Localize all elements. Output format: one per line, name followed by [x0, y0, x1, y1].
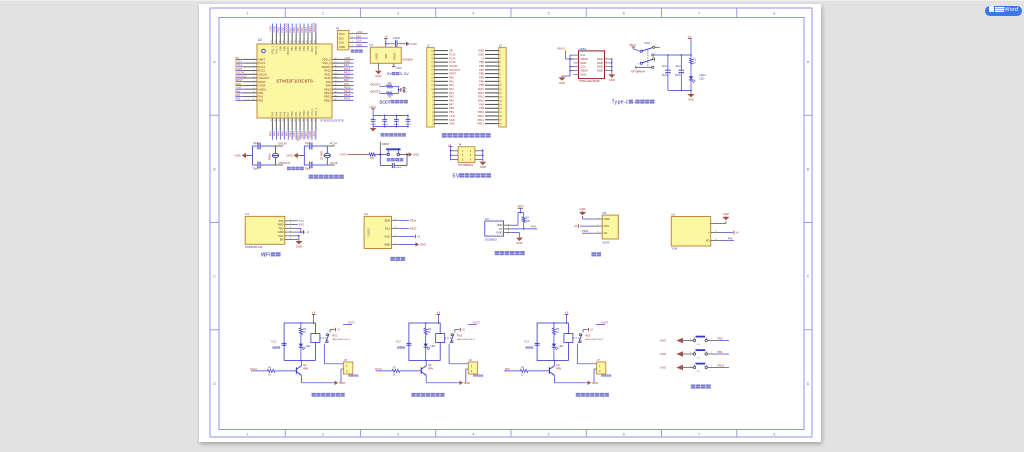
svg-text:2: 2 — [290, 223, 291, 225]
svg-text:SWDIO: SWDIO — [322, 65, 331, 69]
svg-text:4: 4 — [606, 58, 607, 60]
svg-text:NPN: NPN — [428, 367, 433, 370]
svg-text:PC13: PC13 — [258, 61, 265, 65]
svg-text:PB6: PB6 — [479, 72, 484, 76]
svg-text:PA2: PA2 — [235, 97, 240, 101]
svg-text:30pF: 30pF — [305, 142, 311, 145]
svg-text:1: 1 — [247, 12, 249, 16]
svg-text:STA: STA — [279, 219, 284, 223]
svg-text:+5: +5 — [574, 224, 578, 228]
svg-text:GND: GND — [597, 65, 603, 69]
svg-text:VBUS: VBUS — [629, 43, 636, 47]
svg-text:PA15: PA15 — [310, 45, 314, 52]
svg-text:GND: GND — [235, 82, 241, 86]
svg-text:GND: GND — [344, 60, 350, 64]
svg-text:U6: U6 — [671, 212, 675, 216]
svg-text:GND: GND — [580, 72, 586, 76]
svg-text:PA8: PA8 — [479, 106, 484, 110]
svg-text:+3V3: +3V3 — [449, 114, 456, 118]
svg-text:GND: GND — [339, 381, 345, 385]
svg-text:YD8: YD8 — [671, 247, 677, 251]
svg-text:5: 5 — [548, 432, 550, 436]
svg-text:GND: GND — [478, 49, 484, 53]
svg-text:10: 10 — [253, 92, 255, 94]
svg-text:104uF: 104uF — [370, 124, 377, 126]
svg-text:38: 38 — [335, 95, 337, 97]
svg-text:1: 1 — [290, 219, 291, 221]
svg-text:104uF: 104uF — [393, 36, 401, 40]
svg-text:VBUS: VBUS — [580, 69, 588, 73]
svg-text:B: B — [213, 167, 216, 171]
svg-text:OUT3: OUT3 — [601, 320, 609, 324]
svg-text:GND: GND — [278, 230, 284, 234]
svg-text:1K: 1K — [693, 61, 696, 65]
svg-text:VOUT: VOUT — [393, 52, 397, 60]
svg-text:PA5: PA5 — [278, 111, 282, 116]
svg-text:2: 2 — [711, 366, 712, 368]
svg-text:C: C — [213, 275, 216, 279]
svg-text:PB14: PB14 — [410, 218, 417, 222]
svg-text:SWCLK: SWCLK — [314, 46, 318, 55]
svg-text:NPN: NPN — [303, 367, 308, 370]
svg-text:1K: 1K — [521, 374, 524, 377]
svg-text:PA4: PA4 — [531, 225, 536, 229]
svg-text:PB0: PB0 — [449, 106, 454, 110]
svg-text:11: 11 — [253, 95, 255, 97]
svg-text:TXD: TXD — [278, 226, 283, 230]
svg-text:PA4: PA4 — [274, 111, 278, 116]
svg-text:PA10: PA10 — [478, 99, 485, 103]
svg-text:4: 4 — [254, 69, 255, 71]
svg-text:10K: 10K — [526, 219, 531, 223]
svg-text:PB13: PB13 — [410, 226, 417, 230]
svg-text:VSS_2: VSS_2 — [322, 61, 331, 65]
svg-text:PB11: PB11 — [582, 229, 589, 233]
svg-text:6: 6 — [623, 432, 625, 436]
svg-text:PA8: PA8 — [344, 82, 349, 86]
svg-text:LED: LED — [430, 345, 435, 348]
svg-text:6: 6 — [623, 12, 625, 16]
svg-text:GND: GND — [597, 69, 603, 73]
svg-text:PA2: PA2 — [449, 83, 454, 87]
svg-text:GND: GND — [660, 339, 666, 343]
svg-text:GND: GND — [410, 42, 416, 46]
svg-text:VB: VB — [235, 56, 239, 60]
svg-text:+5: +5 — [312, 310, 316, 314]
svg-text:+5: +5 — [590, 328, 594, 332]
svg-text:9: 9 — [254, 88, 255, 90]
svg-text:5: 5 — [548, 12, 550, 16]
svg-text:SWCLK: SWCLK — [312, 22, 316, 32]
svg-text:PA3: PA3 — [449, 87, 454, 91]
svg-text:+5: +5 — [417, 234, 421, 238]
svg-text:Q3: Q3 — [556, 363, 560, 367]
svg-text:PA12: PA12 — [478, 91, 485, 95]
svg-text:CC2: CC2 — [580, 65, 586, 69]
svg-text:PB15: PB15 — [344, 86, 351, 90]
svg-text:44: 44 — [335, 73, 337, 75]
svg-text:TX2: TX2 — [299, 219, 304, 223]
svg-text:RU2: RU2 — [457, 333, 463, 337]
svg-text:8: 8 — [254, 84, 255, 86]
svg-text:PC13: PC13 — [235, 60, 242, 64]
svg-text:GND: GND — [356, 43, 362, 47]
svg-text:PB12: PB12 — [324, 98, 331, 102]
svg-text:R2: R2 — [526, 215, 530, 219]
svg-text:4: 4 — [290, 231, 291, 233]
svg-text:4: 4 — [655, 61, 656, 63]
svg-text:PA9: PA9 — [326, 80, 331, 84]
svg-text:VB: VB — [449, 49, 453, 53]
svg-text:NRST: NRST — [235, 78, 243, 82]
svg-text:PA0: PA0 — [449, 76, 454, 80]
svg-text:GND: GND — [413, 153, 419, 157]
svg-text:J3: J3 — [499, 43, 503, 47]
svg-text:1: 1 — [247, 432, 249, 436]
svg-text:+5: +5 — [337, 328, 341, 332]
svg-text:VCC: VCC — [278, 234, 284, 238]
svg-text:PB0: PB0 — [290, 111, 294, 116]
svg-text:PA7: PA7 — [449, 102, 454, 106]
svg-text:PB1: PB1 — [449, 110, 454, 114]
svg-text:FC2: FC2 — [396, 341, 401, 344]
svg-text:GND: GND — [660, 366, 666, 370]
svg-text:J5: J5 — [344, 358, 347, 362]
svg-text:10K: 10K — [370, 157, 375, 160]
svg-text:S1: S1 — [697, 371, 700, 373]
svg-text:Q2: Q2 — [428, 363, 432, 367]
svg-text:3: 3 — [606, 61, 607, 63]
svg-text:VDD: VDD — [497, 223, 503, 227]
svg-text:FC2: FC2 — [271, 341, 276, 344]
svg-text:1K: 1K — [393, 374, 396, 377]
svg-text:PA10: PA10 — [324, 76, 331, 80]
svg-text:2: 2 — [406, 91, 408, 93]
svg-text:2: 2 — [606, 65, 607, 67]
svg-text:PC15: PC15 — [449, 60, 456, 64]
svg-text:GND: GND — [580, 61, 586, 65]
svg-text:PC14: PC14 — [258, 65, 265, 69]
svg-text:LED: LED — [559, 345, 564, 348]
svg-text:+3V3: +3V3 — [395, 66, 402, 70]
svg-text:PB6: PB6 — [294, 45, 298, 50]
svg-text:B: B — [807, 167, 810, 171]
svg-text:GND: GND — [235, 154, 241, 158]
svg-text:3: 3 — [397, 12, 399, 16]
svg-text:PB1: PB1 — [294, 111, 298, 116]
svg-text:J4: J4 — [458, 143, 462, 147]
svg-text:PB7: PB7 — [479, 68, 484, 72]
svg-text:S1: S1 — [697, 344, 700, 346]
svg-text:VDD_2: VDD_2 — [322, 58, 331, 62]
svg-text:PA1: PA1 — [449, 79, 454, 83]
svg-text:7: 7 — [698, 432, 700, 436]
svg-text:C: C — [807, 275, 810, 279]
svg-text:U1: U1 — [245, 212, 249, 216]
svg-text:30pF: 30pF — [253, 167, 259, 170]
svg-text:PB4: PB4 — [302, 45, 306, 50]
svg-text:RU1: RU1 — [332, 333, 338, 337]
svg-text:PA12: PA12 — [344, 71, 351, 75]
svg-text:R7: R7 — [393, 367, 397, 370]
svg-text:PC13: PC13 — [375, 367, 382, 371]
svg-text:EC2: EC2 — [676, 64, 682, 68]
svg-text:PC14: PC14 — [330, 141, 337, 145]
svg-text:I/O: I/O — [604, 231, 608, 235]
svg-text:PA12: PA12 — [324, 69, 331, 73]
svg-text:PB1: PB1 — [718, 350, 724, 354]
svg-text:PB11: PB11 — [306, 110, 310, 117]
svg-text:+3V3: +3V3 — [344, 56, 351, 60]
svg-text:+3V3: +3V3 — [517, 204, 524, 208]
svg-text:2: 2 — [711, 339, 712, 341]
svg-text:6: 6 — [290, 238, 291, 240]
svg-text:+3V3: +3V3 — [369, 105, 376, 109]
svg-text:GND: GND — [688, 97, 694, 101]
svg-text:PB15: PB15 — [478, 110, 485, 114]
svg-text:SRD-05VDC-SL-C: SRD-05VDC-SL-C — [585, 339, 604, 341]
svg-text:5: 5 — [254, 73, 255, 75]
svg-text:GND: GND — [296, 244, 302, 248]
svg-text:VSS_1: VSS_1 — [274, 45, 278, 54]
svg-text:1K: 1K — [556, 331, 559, 334]
svg-text:3: 3 — [254, 66, 255, 68]
svg-text:RU3: RU3 — [585, 333, 591, 337]
svg-text:NRST: NRST — [382, 142, 390, 146]
svg-text:VDD_1: VDD_1 — [314, 108, 318, 117]
svg-text:PA15: PA15 — [478, 87, 485, 91]
svg-text:OLED: OLED — [367, 227, 371, 236]
svg-text:PB0: PB0 — [718, 336, 724, 340]
svg-text:P1: P1 — [336, 26, 340, 30]
svg-text:PC14: PC14 — [449, 56, 456, 60]
svg-text:GND: GND — [449, 118, 455, 122]
svg-text:D: D — [213, 382, 216, 386]
svg-text:BOOT1: BOOT1 — [371, 90, 381, 94]
svg-text:+5: +5 — [437, 310, 441, 314]
svg-text:GND: GND — [597, 57, 603, 61]
svg-text:8: 8 — [773, 432, 775, 436]
svg-text:PB13: PB13 — [478, 118, 485, 122]
svg-text:U3: U3 — [485, 217, 489, 221]
svg-text:+3V3: +3V3 — [235, 86, 242, 90]
svg-text:OSCIN: OSCIN — [278, 141, 287, 145]
svg-text:PA1: PA1 — [235, 93, 240, 97]
svg-text:8MHz: 8MHz — [269, 153, 272, 160]
svg-text:V: V — [456, 174, 460, 180]
svg-text:TYPEC-2022-BCP6: TYPEC-2022-BCP6 — [579, 80, 601, 83]
svg-text:6: 6 — [254, 77, 255, 79]
svg-text:2: 2 — [711, 352, 712, 354]
svg-text:PB15: PB15 — [324, 87, 331, 91]
svg-text:SW1: SW1 — [644, 41, 651, 45]
svg-text:NPN: NPN — [556, 367, 561, 370]
svg-text:J2: J2 — [427, 43, 431, 47]
svg-text:47: 47 — [335, 62, 337, 64]
svg-text:VSSA: VSSA — [258, 84, 265, 88]
svg-text:PB9: PB9 — [479, 60, 484, 64]
svg-text:+5: +5 — [481, 56, 485, 60]
svg-text:PB4: PB4 — [479, 79, 484, 83]
svg-text:PB7: PB7 — [290, 45, 294, 50]
svg-text:A: A — [807, 60, 810, 64]
svg-text:4: 4 — [472, 432, 474, 436]
svg-text:PA11: PA11 — [325, 72, 332, 76]
svg-text:PB14: PB14 — [344, 89, 351, 93]
svg-text:STM32F103C8T6: STM32F103C8T6 — [320, 119, 344, 123]
svg-text:R6: R6 — [268, 367, 272, 370]
svg-text:c: c — [626, 100, 629, 106]
svg-text:GND: GND — [480, 165, 486, 169]
svg-text:PB13: PB13 — [324, 95, 331, 99]
svg-text:PA0: PA0 — [505, 367, 510, 371]
svg-text:OSCOUT: OSCOUT — [279, 161, 291, 165]
svg-text:PB10: PB10 — [302, 110, 306, 117]
svg-text:BOOT0: BOOT0 — [371, 82, 381, 86]
svg-text:BOOT0: BOOT0 — [286, 45, 290, 54]
svg-text:SG90: SG90 — [602, 240, 610, 244]
svg-text:30pF: 30pF — [305, 167, 311, 170]
svg-text:+3V3: +3V3 — [339, 153, 346, 157]
svg-text:PA2: PA2 — [258, 98, 263, 102]
svg-text:PB5: PB5 — [479, 76, 484, 80]
svg-text:SDA: SDA — [385, 218, 391, 222]
svg-text:45: 45 — [335, 69, 337, 71]
svg-text:PA6: PA6 — [282, 111, 286, 116]
svg-text:PB3: PB3 — [479, 83, 484, 87]
svg-text:J6: J6 — [469, 358, 472, 362]
svg-text:PB14: PB14 — [478, 114, 485, 118]
svg-text:3: 3 — [638, 64, 639, 66]
svg-text:OSCIN: OSCIN — [235, 71, 244, 75]
svg-text:KFT08PA04: KFT08PA04 — [631, 71, 645, 74]
svg-text:PA0: PA0 — [235, 89, 240, 93]
svg-text:PB12: PB12 — [478, 122, 485, 126]
svg-text:1: 1 — [690, 366, 691, 368]
svg-text:PA1: PA1 — [258, 95, 263, 99]
svg-text:GND: GND — [609, 78, 615, 82]
svg-text:U4: U4 — [364, 212, 368, 216]
svg-text:PB13: PB13 — [344, 93, 351, 97]
svg-text:46: 46 — [335, 66, 337, 68]
svg-text:GND: GND — [384, 242, 390, 246]
svg-text:VCC: VCC — [604, 224, 610, 228]
svg-text:OUT2: OUT2 — [473, 320, 481, 324]
svg-text:PA4: PA4 — [449, 91, 454, 95]
svg-text:U2: U2 — [258, 38, 262, 42]
svg-text:1: 1 — [690, 339, 691, 341]
svg-text:7: 7 — [698, 12, 700, 16]
svg-text:2: 2 — [322, 12, 324, 16]
svg-text:PB2: PB2 — [298, 111, 302, 116]
svg-text:+3V3: +3V3 — [312, 131, 316, 138]
svg-text:+5: +5 — [736, 231, 740, 235]
svg-text:GND: GND — [464, 381, 470, 385]
svg-text:25uF: 25uF — [661, 73, 667, 77]
svg-text:7: 7 — [254, 80, 255, 82]
svg-text:PA0: PA0 — [258, 91, 263, 95]
svg-text:A: A — [213, 60, 216, 64]
svg-text:GND: GND — [449, 122, 455, 126]
svg-text:RX2: RX2 — [299, 223, 305, 227]
svg-text:40: 40 — [335, 88, 337, 90]
svg-text:PA5: PA5 — [728, 237, 733, 241]
svg-text:GND: GND — [420, 243, 426, 247]
svg-text:R8: R8 — [521, 367, 525, 370]
svg-text:PA13: PA13 — [344, 67, 351, 71]
svg-text:NRST: NRST — [449, 72, 456, 76]
svg-text:DIO: DIO — [344, 63, 349, 67]
svg-text:4: 4 — [472, 12, 474, 16]
svg-text:I/O: I/O — [706, 239, 710, 243]
svg-text:1: 1 — [606, 69, 607, 71]
svg-text:EN: EN — [280, 238, 284, 242]
svg-text:GND: GND — [478, 52, 484, 56]
svg-text:NRST: NRST — [258, 80, 266, 84]
svg-text:+5: +5 — [688, 34, 692, 38]
svg-text:PH-TB0811S: PH-TB0811S — [459, 164, 474, 167]
svg-text:DS18B20: DS18B20 — [485, 238, 497, 242]
svg-text:+5: +5 — [384, 35, 388, 39]
svg-text:GND: GND — [579, 207, 585, 211]
svg-text:PB14: PB14 — [324, 91, 331, 95]
svg-text:USB1: USB1 — [579, 47, 587, 51]
svg-text:PB8: PB8 — [479, 64, 484, 68]
svg-text:GND: GND — [723, 212, 729, 216]
svg-text:ESP8266-12F: ESP8266-12F — [245, 245, 263, 249]
svg-text:VCC: VCC — [384, 234, 390, 238]
svg-text:U5: U5 — [602, 211, 606, 215]
svg-text:PB10: PB10 — [718, 363, 725, 367]
svg-text:104uF: 104uF — [395, 167, 402, 169]
svg-text:S1: S1 — [697, 358, 700, 360]
svg-text:GND: GND — [375, 74, 381, 78]
svg-text:PB8: PB8 — [282, 45, 286, 50]
svg-text:PA11: PA11 — [478, 95, 485, 99]
svg-text:CC1: CC1 — [580, 53, 586, 57]
svg-text:25uF: 25uF — [675, 73, 681, 77]
svg-text:STM32F103C8T6: STM32F103C8T6 — [276, 79, 313, 84]
svg-text:PC15: PC15 — [235, 67, 242, 71]
svg-text:1K: 1K — [428, 331, 431, 334]
svg-text:VIN: VIN — [384, 54, 388, 59]
svg-text:J7: J7 — [597, 358, 600, 362]
svg-text:SRD-05VDC-SL-C: SRD-05VDC-SL-C — [457, 339, 476, 341]
svg-text:30pF: 30pF — [253, 142, 259, 145]
svg-text:GND: GND — [375, 53, 379, 59]
svg-text:-: - — [709, 223, 710, 226]
svg-text:OSCIN: OSCIN — [449, 64, 457, 68]
svg-text:+5: +5 — [565, 310, 569, 314]
svg-text:PB5: PB5 — [298, 45, 302, 50]
svg-text:10K: 10K — [387, 82, 392, 85]
svg-text:+5: +5 — [306, 230, 310, 234]
svg-text:1: 1 — [655, 45, 656, 47]
svg-text:PA6: PA6 — [449, 99, 454, 103]
svg-text:PC15: PC15 — [258, 69, 265, 73]
svg-text:104uF: 104uF — [394, 124, 401, 126]
svg-text:PA11: PA11 — [344, 74, 351, 78]
svg-text:VDD_1: VDD_1 — [270, 45, 274, 54]
svg-text:SCL: SCL — [385, 226, 391, 230]
svg-text:42: 42 — [335, 80, 337, 82]
svg-text:T: T — [388, 99, 391, 104]
svg-text:U7: U7 — [369, 43, 373, 47]
svg-text:OSCOUT: OSCOUT — [235, 74, 247, 78]
svg-text:37: 37 — [335, 99, 337, 101]
svg-text:OSCOUT: OSCOUT — [449, 68, 461, 72]
svg-text:I/O: I/O — [499, 227, 503, 231]
